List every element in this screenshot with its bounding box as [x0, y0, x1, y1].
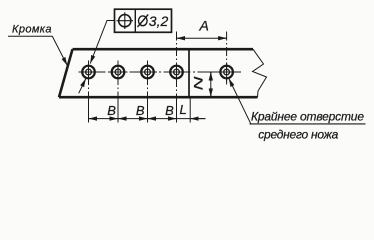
hole 1 — [79, 63, 98, 82]
vertical centre line of hole 4 (extends up to dimension A) — [176, 32, 178, 97]
svg-text:L: L — [180, 102, 187, 117]
hole 5 (extreme hole of middle knife) — [217, 63, 236, 82]
callout frame (two cells) — [115, 9, 172, 32]
svg-text:среднего ножа: среднего ножа — [258, 127, 338, 141]
note shelf line — [250, 123, 366, 125]
hole 3 — [138, 63, 157, 82]
svg-text:Кромка: Кромка — [12, 24, 52, 36]
extension line below hole 3 — [147, 97, 149, 123]
svg-text:N: N — [193, 76, 206, 90]
extension line below hole 2 — [117, 97, 119, 123]
extension line below hole 1 — [88, 97, 90, 123]
svg-text:B: B — [136, 103, 145, 118]
extension line below hole 4 — [176, 97, 178, 123]
dimension A line with arrows — [177, 37, 227, 39]
svg-text:B: B — [165, 103, 174, 118]
knife plate outline (top edge, bottom edge, slanted left edge) — [59, 49, 258, 97]
vertical centre line of hole 5 (extends up to dimension A) — [226, 32, 228, 85]
vertical centre line of hole 2 — [117, 61, 119, 97]
diameter sign of value 3,2 — [138, 15, 149, 28]
leader from Kromka label to left edge — [8, 36, 67, 65]
leader from callout frame to hole 1 — [90, 21, 114, 64]
chained dimension line B B B L with arrows — [89, 118, 206, 120]
svg-text:Крайнее отверстие: Крайнее отверстие — [251, 110, 364, 124]
short leader to hole 1 from bottom edge — [79, 79, 86, 94]
vertical centre line of hole 3 — [147, 61, 149, 97]
break line (zigzag at right end of middle knife) — [253, 49, 267, 97]
hole 2 — [109, 63, 128, 82]
vertical centre line of hole 1 — [88, 61, 90, 97]
hole 4 — [167, 63, 186, 82]
vertical dimension N (hole 5 centre to bottom edge) — [204, 72, 221, 97]
svg-text:B: B — [107, 103, 116, 118]
svg-text:A: A — [199, 18, 209, 34]
extension line below knife right edge (for dimension L) — [189, 97, 191, 123]
horizontal centre line through all holes — [79, 71, 242, 73]
hole symbol (circle with cross) in callout frame — [117, 12, 134, 29]
leader from note text to hole 5 — [229, 78, 251, 123]
right edge of outer knife (seam over middle knife) — [188, 50, 190, 96]
svg-text:3,2: 3,2 — [149, 13, 169, 29]
